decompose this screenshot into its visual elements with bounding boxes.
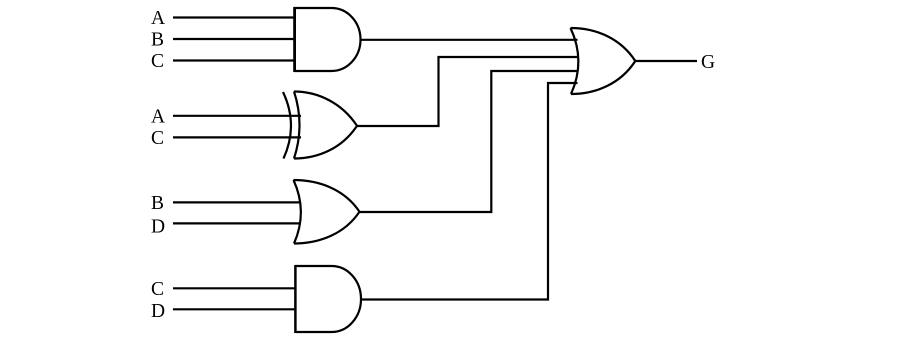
- OR gate U5 (4-input output gate): [571, 28, 636, 94]
- OR gate U3 (inputs B,D): [294, 180, 360, 244]
- wire U2 output to OR U5 input 2: [357, 57, 578, 126]
- svg-text:A: A: [151, 106, 165, 127]
- wire C to U2: [173, 136, 301, 138]
- wire C to U4: [173, 287, 295, 289]
- wire B to U1: [173, 38, 294, 40]
- wire C to U1: [173, 59, 294, 61]
- svg-text:D: D: [151, 216, 165, 237]
- wire A to U2: [173, 115, 301, 117]
- wire U1 output to OR U5 input 1: [361, 39, 578, 41]
- svg-text:G: G: [701, 52, 715, 73]
- wire U4 output to OR U5 input 4: [361, 83, 578, 300]
- AND gate U1 (inputs A,B,C): [294, 8, 361, 71]
- wire D to U4: [173, 308, 295, 310]
- wire D to U3: [173, 222, 301, 224]
- AND gate U4 (inputs C,D): [295, 266, 361, 332]
- svg-text:B: B: [151, 193, 164, 214]
- svg-text:B: B: [151, 30, 164, 51]
- wire A to U1: [173, 16, 294, 18]
- svg-text:C: C: [151, 51, 164, 72]
- wire B to U3: [173, 201, 301, 203]
- svg-text:C: C: [151, 128, 164, 149]
- svg-text:D: D: [151, 301, 165, 322]
- wire U3 output to OR U5 input 3: [360, 71, 578, 212]
- svg-text:A: A: [151, 8, 165, 29]
- XOR gate U2 (inputs A,C): [283, 92, 357, 159]
- wire U5 output to G: [635, 60, 697, 62]
- svg-text:C: C: [151, 279, 164, 300]
